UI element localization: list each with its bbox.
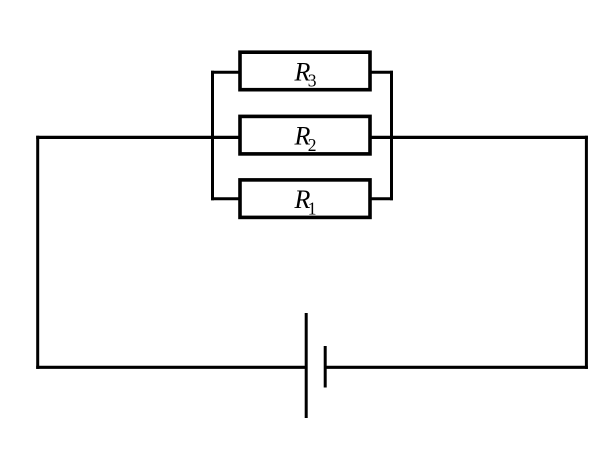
wire bottom right segment — [325, 366, 588, 369]
svg-text:3: 3 — [308, 71, 317, 91]
wire middle horizontal left segment — [36, 136, 240, 139]
battery long plate (positive) — [305, 313, 308, 418]
wire stub left to R1 — [211, 197, 240, 200]
battery — [306, 313, 325, 418]
wire middle horizontal right segment — [370, 136, 588, 139]
resistor R2 — [240, 116, 370, 154]
resistor R3 — [240, 52, 370, 90]
wire right vertical — [585, 136, 588, 369]
wire stub left to R3 — [211, 71, 240, 74]
resistor R1 — [240, 180, 370, 219]
svg-text:1: 1 — [308, 199, 317, 219]
node right bus — [390, 71, 393, 201]
svg-text:2: 2 — [308, 135, 317, 155]
node left bus — [211, 71, 214, 201]
wire stub right from R3 — [370, 71, 393, 74]
battery short plate (negative) — [324, 346, 327, 388]
wire stub right from R1 — [370, 197, 393, 200]
wire left vertical — [36, 136, 39, 369]
wire bottom left segment — [36, 366, 306, 369]
